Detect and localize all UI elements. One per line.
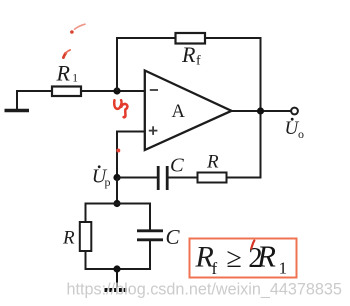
resistor R (series) [198,173,227,183]
op-amp U1 (A) [145,71,232,151]
wire: Up down to parallel RC [116,178,118,204]
svg-text:p: p [105,175,111,189]
wire: junction up to feedback [116,38,118,91]
terminal Uo (open circle) [291,108,298,115]
wire: top feedback right segment [206,37,262,39]
svg-text:1: 1 [72,73,78,85]
wire: top feedback left segment [116,37,176,39]
ground (left) [5,91,30,111]
wire: plus input to Up node [117,132,146,178]
minus sign [150,89,158,91]
svg-text:≥: ≥ [227,243,242,274]
resistor R (parallel) [80,222,92,251]
capacitor C (parallel) [137,231,163,240]
formula box [190,239,297,278]
red annotation: stroke top-left [70,30,74,34]
node Up (junction dot) [113,174,120,181]
svg-text:1: 1 [279,259,288,278]
node v2 (junction dot) [113,87,120,94]
wire: right branch down to C [149,203,151,231]
plus sign [149,126,158,135]
svg-text:C: C [166,225,181,249]
svg-text:R: R [56,61,71,86]
wire: op-amp output [231,110,292,112]
svg-text:f: f [212,259,218,278]
wire: capacitor to R [168,177,198,179]
wire: parallel RC bottom rail [86,268,151,270]
red annotation: node label v2 [114,100,127,117]
capacitor C (series) [158,166,167,190]
wire: R to right vertical [227,177,262,179]
red annotation: tick above 2 [251,241,254,249]
node parallel-RC top (junction dot) [113,200,120,207]
svg-text:R: R [181,42,196,67]
svg-text:https://blog.csdn.net/weixin_4: https://blog.csdn.net/weixin_44378835 [67,281,342,299]
svg-text:C: C [170,155,184,177]
formula Rf >= 2R1 [195,239,288,279]
wire: ground to R1 [16,90,53,92]
wire: R1 to inverting input [81,90,146,92]
wire: Up to series capacitor [117,177,157,179]
red annotation: short dash [63,53,65,57]
wire: C to bottom rail [149,240,151,270]
wire: left branch down to R [85,203,87,223]
wire: right vertical (feedback/output to RC) [260,37,262,178]
svg-text:R: R [206,152,219,173]
wire: R to bottom rail [85,251,87,270]
svg-text:f: f [196,54,201,69]
node parallel-RC bottom (junction dot) [113,265,120,272]
resistor R1 [52,87,81,97]
svg-text:A: A [172,102,186,122]
wire: parallel RC top rail [86,203,151,205]
resistor Rf [176,33,206,44]
svg-text:o: o [298,127,304,141]
red annotation: dot near plus wire [116,149,120,153]
ground (bottom, hatched) [105,269,131,290]
svg-text:R: R [62,228,75,249]
svg-text:R: R [256,239,276,274]
node output (junction dot) [257,107,264,114]
